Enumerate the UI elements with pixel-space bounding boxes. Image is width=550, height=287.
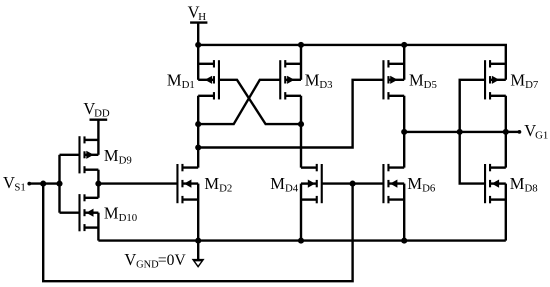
transistor M_D2 xyxy=(176,164,198,203)
junction MD5 gate tap xyxy=(195,144,201,150)
wire M_D7 gate to mid node xyxy=(460,80,485,132)
supply bar V_DD xyxy=(90,118,108,120)
junction VS1 gatebus xyxy=(56,181,62,187)
junction VS1 tap xyxy=(40,181,46,187)
svg-text:GND: GND xyxy=(136,260,159,271)
junction mid gate tap xyxy=(457,129,463,135)
svg-text:=0V: =0V xyxy=(158,252,187,269)
svg-text:S1: S1 xyxy=(14,181,25,193)
wire V_DD to M_D9 source xyxy=(97,120,99,155)
terminal stub V_G1 xyxy=(506,131,520,133)
transistor M_D3 xyxy=(279,60,301,99)
terminal bullet V_S1 xyxy=(27,182,31,186)
svg-text:MD4: MD4 xyxy=(270,174,298,195)
ground marker arrow inner xyxy=(195,261,201,265)
wire M_D1 source to rail xyxy=(197,45,199,80)
gate bus M_D9/M_D10 xyxy=(58,155,60,213)
svg-text:MD7: MD7 xyxy=(510,70,538,91)
wire M_D8 gate to mid node xyxy=(460,132,485,184)
junction rail-MD3 xyxy=(298,42,304,48)
svg-text:V: V xyxy=(124,250,136,269)
wire V_H to rail xyxy=(197,23,199,45)
svg-text:MD9: MD9 xyxy=(104,146,132,167)
svg-text:MD6: MD6 xyxy=(407,174,435,195)
transistor M_D7 xyxy=(484,60,506,99)
supply bar V_H xyxy=(190,21,207,23)
wire M_D9 gate xyxy=(60,154,80,156)
wire M_D4 gate to M_D6 gate xyxy=(322,182,384,184)
wire M_D4 source to ground xyxy=(300,184,302,241)
svg-text:MD10: MD10 xyxy=(104,204,137,225)
junction rail-MD1 xyxy=(195,42,201,48)
top rail wire xyxy=(198,45,506,80)
transistor M_D10 xyxy=(78,194,98,231)
junction inverter out xyxy=(95,181,101,187)
transistor M_D9 xyxy=(78,136,98,173)
svg-text:DD: DD xyxy=(94,107,110,119)
wire M_D6 source to ground xyxy=(403,184,405,241)
svg-text:MD3: MD3 xyxy=(305,70,333,91)
junction gnd-MD6 xyxy=(401,238,407,244)
transistor M_D8 xyxy=(484,164,506,203)
wire M_D3 gate to M_D1 drain (cross) xyxy=(198,80,280,124)
ground rail wire xyxy=(98,239,505,241)
wire M_D3 drain to M_D4 drain xyxy=(300,96,302,168)
wire M_D5 source to rail xyxy=(403,45,405,80)
svg-text:MD1: MD1 xyxy=(167,70,195,91)
wire M_D3 source to rail xyxy=(300,45,302,80)
wire M_D1 drain to M_D2 drain xyxy=(197,96,199,168)
wire M_D10 gate xyxy=(60,211,80,213)
junction MD4/6 gate tap xyxy=(350,181,356,187)
wire mid node to V_G1 xyxy=(404,131,506,133)
wire M_D2 source to ground xyxy=(197,184,199,241)
wire V_S1 to M_D4/M_D6 gates (bottom feed) xyxy=(43,184,352,282)
wire M_D7 drain to M_D8 drain xyxy=(505,96,507,168)
wire M_D9 drain to M_D10 drain xyxy=(97,170,99,198)
wire M_D1 gate to M_D3 drain (cross) xyxy=(219,80,301,124)
ground marker arrow xyxy=(192,259,205,268)
transistor M_D5 xyxy=(382,60,404,99)
junction cross node right xyxy=(298,121,304,127)
transistor M_D4 xyxy=(301,164,323,203)
junction gnd-MD4 xyxy=(298,238,304,244)
junction node V_G1 xyxy=(503,129,509,135)
terminal bullet V_G1 xyxy=(518,130,522,134)
wire M_D5 gate to M_D1 drain xyxy=(198,80,383,148)
junction gnd-MD2 xyxy=(195,238,201,244)
wire M_D8 source to ground xyxy=(505,184,507,241)
svg-text:H: H xyxy=(198,11,206,23)
ground marker stem xyxy=(197,241,199,260)
svg-text:MD5: MD5 xyxy=(409,70,437,91)
transistor M_D1 xyxy=(198,60,220,99)
junction cross node left xyxy=(195,121,201,127)
junction rail-MD5 xyxy=(401,42,407,48)
junction mid MD5-src xyxy=(401,129,407,135)
wire M_D5 drain to M_D6 drain xyxy=(403,96,405,168)
svg-text:MD8: MD8 xyxy=(510,174,538,195)
wire M_D10 source to ground xyxy=(97,213,99,241)
svg-text:G1: G1 xyxy=(535,129,548,141)
svg-text:MD2: MD2 xyxy=(204,174,232,195)
svg-text:V: V xyxy=(3,173,15,192)
wire inverter output to M_D2 gate xyxy=(98,182,177,184)
terminal wire V_S1 xyxy=(29,182,59,184)
transistor M_D6 xyxy=(382,164,404,203)
